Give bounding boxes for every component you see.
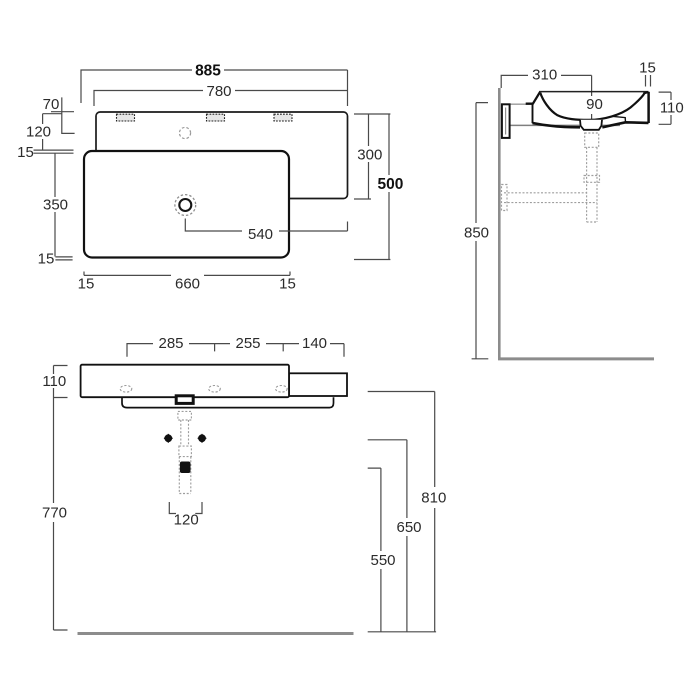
dashed trap horizontal pipe	[504, 193, 597, 203]
bottom shell line	[533, 122, 649, 127]
dimension 15 lower pair	[55, 257, 72, 260]
svg-text:15: 15	[17, 144, 34, 161]
dimension 70 line	[51, 97, 75, 134]
dashed upper pipe (front)	[181, 420, 189, 446]
faucet hole (dashed circle)	[179, 127, 190, 138]
back wall stub	[526, 102, 533, 104]
back face vertical	[532, 104, 534, 124]
dimension 885 line	[81, 70, 348, 106]
dimension 650 line	[368, 440, 407, 632]
dimension 350 line	[54, 153, 56, 256]
mounting mark 3	[274, 114, 292, 121]
dashed lower pipe (front)	[179, 457, 191, 494]
svg-text:885: 885	[195, 63, 221, 80]
svg-text:140: 140	[302, 335, 327, 352]
svg-text:300: 300	[357, 147, 382, 164]
fixing bolt right	[198, 434, 207, 443]
dashed coupling (front)	[179, 446, 192, 457]
back wall peak left slope	[533, 92, 540, 104]
wall line	[498, 88, 501, 358]
dimension 90 leader line	[591, 75, 593, 119]
shut-off valve (black)	[180, 462, 191, 474]
floor line (front view)	[78, 632, 354, 635]
dashed wall flange	[502, 185, 508, 211]
right ledge (front view)	[289, 373, 347, 396]
front apron outer face	[647, 92, 650, 123]
front top dimension line 285/255/140	[127, 344, 344, 357]
dashed pipe coupling (side)	[584, 176, 600, 183]
svg-text:120: 120	[174, 512, 199, 529]
svg-text:15: 15	[279, 276, 296, 293]
dashed hole mark 2 (front)	[209, 386, 221, 393]
dimension 850 line	[472, 103, 489, 359]
dimension 300 line	[354, 114, 390, 199]
svg-text:780: 780	[206, 83, 231, 100]
floor line (side view)	[498, 357, 654, 360]
wall bracket	[502, 104, 510, 138]
mounting mark 1	[117, 114, 135, 121]
bottom dimension line 15/660/15	[84, 272, 290, 276]
svg-text:810: 810	[421, 490, 446, 507]
svg-text:15: 15	[639, 60, 656, 77]
dimension 540 leader	[185, 219, 347, 232]
basin bowl outline	[84, 151, 289, 258]
dashed vertical pipe (side)	[587, 147, 597, 222]
svg-text:15: 15	[78, 276, 95, 293]
svg-text:650: 650	[396, 519, 421, 536]
dimension 110 (front) line	[54, 366, 68, 398]
drain outer dashed ring	[175, 195, 196, 216]
dashed hole mark 1 (front)	[120, 386, 132, 393]
drain fitting (front)	[176, 396, 193, 404]
svg-text:310: 310	[532, 67, 557, 84]
svg-text:110: 110	[660, 100, 684, 117]
mounting mark 2	[207, 114, 225, 121]
svg-text:255: 255	[235, 335, 260, 352]
dashed hole mark 3 (front)	[276, 386, 288, 393]
ledge (back shelf) outline	[96, 112, 348, 199]
drain inner ring	[179, 199, 191, 211]
dimension 810 line	[368, 392, 436, 632]
svg-text:350: 350	[43, 197, 68, 214]
front apron top corner thickening	[644, 92, 649, 93]
dimension 15 upper pair	[34, 150, 74, 153]
dimension 770 line	[54, 398, 68, 631]
dashed drain flange (side)	[585, 133, 599, 147]
svg-text:285: 285	[158, 335, 183, 352]
svg-text:660: 660	[175, 276, 200, 293]
rim top line	[539, 91, 649, 93]
fixing bolt left	[164, 434, 173, 443]
svg-text:770: 770	[42, 505, 67, 522]
basin front face	[81, 365, 289, 398]
svg-text:15: 15	[38, 251, 55, 268]
svg-text:850: 850	[464, 225, 489, 242]
apron under basin	[122, 397, 334, 407]
svg-text:500: 500	[377, 176, 403, 193]
svg-text:540: 540	[248, 226, 273, 243]
bowl inner curve	[540, 93, 644, 120]
wall bracket slot	[505, 108, 507, 135]
dimension 120 line	[43, 114, 62, 150]
dimension 500 line	[354, 114, 390, 260]
dimension 15 (rim) ticks	[646, 75, 651, 87]
dimension 120 brackets	[169, 502, 202, 514]
dimension 780 line	[94, 91, 347, 107]
dimension 310 line	[501, 75, 591, 88]
hidden line top (bracket to body)	[510, 103, 526, 105]
drain funnel (section)	[580, 120, 602, 130]
dashed drain flange (front)	[178, 411, 192, 420]
svg-text:90: 90	[586, 96, 603, 113]
hidden line bottom (under shell)	[510, 124, 620, 126]
svg-text:550: 550	[370, 552, 395, 569]
svg-text:70: 70	[43, 96, 60, 113]
dimension 550 line	[368, 468, 381, 632]
svg-text:110: 110	[42, 373, 66, 390]
svg-text:120: 120	[26, 124, 51, 141]
bowl foot step line	[612, 116, 626, 122]
dimension 110 bracket	[659, 92, 671, 124]
